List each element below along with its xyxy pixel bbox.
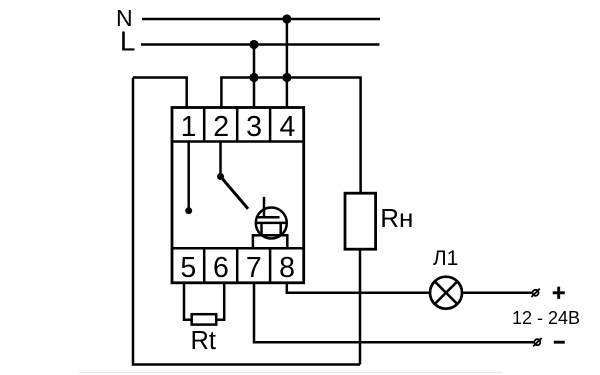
wire Rt up to terminal 6 [216, 283, 224, 320]
node junction on L line [249, 40, 258, 49]
wire internal contact from terminal 1 [187, 142, 190, 211]
faint page artifact line [78, 372, 502, 374]
lamp L1 cross diagonal 1 [435, 281, 458, 304]
wire bus from terminal 2 up and over to resistor Rn [221, 78, 360, 194]
svg-text:6: 6 [213, 252, 229, 284]
channel bar of output driver [255, 222, 287, 225]
output driver right leg [279, 223, 282, 235]
resistor Rn [345, 193, 376, 249]
svg-text:3: 3 [246, 111, 262, 143]
label plus sign [553, 291, 565, 294]
output driver pedestal [253, 235, 287, 248]
svg-text:4: 4 [279, 111, 295, 143]
switch arm [221, 177, 249, 209]
terminal divider 6-7 [236, 248, 239, 282]
lamp L1 cross diagonal 2 [435, 281, 458, 304]
wire terminal 7 down to minus terminal [254, 283, 534, 343]
device outline [172, 108, 304, 283]
lamp L1 circle [430, 277, 462, 309]
wire terminal 8 to lamp [287, 283, 431, 293]
svg-text:Rн: Rн [380, 203, 413, 233]
svg-text:Л1: Л1 [433, 247, 458, 270]
wire from L line down to terminal 3 [253, 45, 256, 109]
svg-text:L: L [120, 25, 136, 56]
wire resistor Rn bottom lead [359, 249, 362, 365]
screw terminal plus [533, 290, 539, 296]
svg-text:12 - 24В: 12 - 24В [512, 308, 580, 328]
wire bracket from terminal 1 up and left [133, 78, 187, 109]
svg-text:8: 8 [279, 252, 295, 284]
terminal divider 7-8 [269, 248, 272, 282]
svg-text:5: 5 [180, 252, 196, 284]
node junction bus with N drop [282, 73, 291, 82]
svg-text:2: 2 [213, 111, 229, 143]
wire internal pivot from terminal 2 [219, 142, 222, 177]
terminal divider 1-2 [203, 108, 206, 142]
node internal contact 1 end [185, 207, 192, 214]
terminal row top bottom line [172, 140, 304, 143]
output driver circle U1 [256, 208, 287, 239]
terminal divider 3-4 [269, 108, 272, 142]
wire lamp to plus terminal [462, 291, 533, 294]
wire terminal 5 down to Rt [184, 283, 192, 320]
node switch pivot [217, 173, 224, 180]
wire L supply line [141, 43, 380, 46]
svg-text:7: 7 [246, 252, 262, 284]
wire left wrap down and along bottom [133, 78, 360, 365]
node junction bus with L drop [249, 73, 258, 82]
terminal divider 5-6 [203, 248, 206, 282]
svg-text:1: 1 [181, 111, 197, 143]
output driver left leg [260, 223, 263, 235]
screw terminal minus [534, 339, 540, 345]
label minus sign [554, 341, 565, 344]
gate bar of output driver [258, 216, 280, 219]
gate lead of output driver [263, 197, 266, 217]
node junction on N line [282, 14, 291, 23]
resistor Rt [192, 314, 217, 324]
terminal row bottom top line [172, 247, 304, 250]
terminal divider 2-3 [236, 108, 239, 142]
wire N supply line [142, 18, 380, 21]
svg-text:Rt: Rt [191, 327, 217, 355]
wire from N line down to terminal 4 [286, 19, 289, 109]
